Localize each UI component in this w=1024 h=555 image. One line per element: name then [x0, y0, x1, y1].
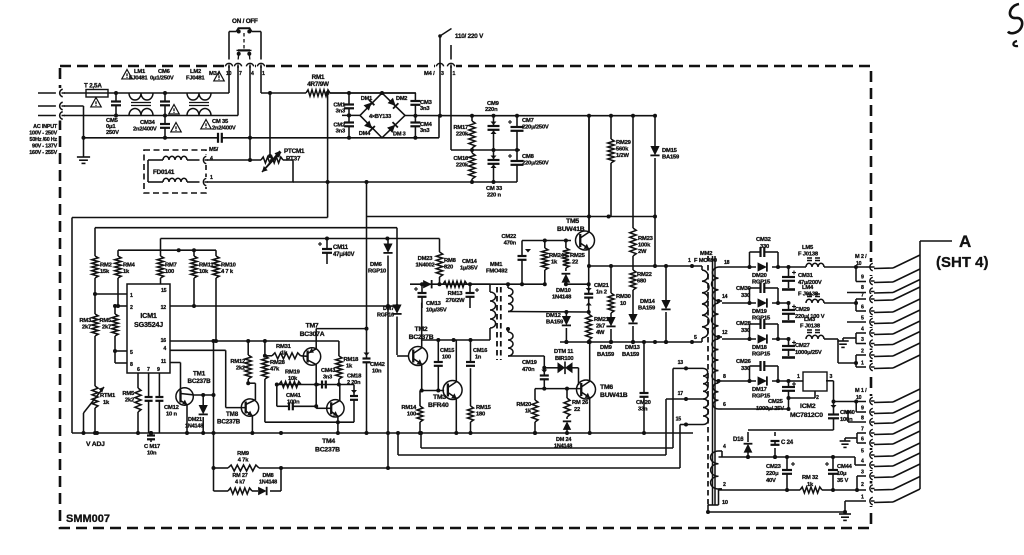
capacitor CM27	[787, 337, 791, 341]
svg-text:RM10: RM10	[221, 263, 236, 269]
svg-text:3: 3	[441, 71, 444, 77]
choke LM2 common-mode	[187, 93, 211, 100]
svg-text:330: 330	[760, 244, 769, 250]
wire M1 pin8 tie	[847, 412, 849, 422]
resistor RM25	[565, 241, 567, 249]
transformer MM1 core	[496, 287, 498, 360]
wire line C (neutral)	[64, 115, 238, 117]
svg-text:CM44: CM44	[837, 464, 853, 470]
svg-text:4 7 k: 4 7 k	[221, 269, 234, 275]
wire M5 pin4 to PTCM1	[207, 159, 261, 161]
HV mid rail	[451, 149, 520, 151]
svg-text:CM31: CM31	[798, 273, 814, 279]
svg-text:TM4: TM4	[322, 438, 335, 445]
capacitor CM35 series	[217, 133, 219, 143]
svg-text:CM7: CM7	[522, 118, 534, 124]
ground pin10	[839, 513, 851, 515]
svg-text:CM25: CM25	[768, 399, 784, 405]
resistor RM3	[94, 294, 96, 314]
resistor RM18	[338, 341, 340, 356]
svg-text:3: 3	[861, 470, 864, 476]
capacitor CM3	[414, 93, 416, 101]
svg-text:2: 2	[130, 305, 133, 311]
wire M2 pin 8 cascade	[874, 292, 893, 295]
wire M1 pin 1 cascade	[874, 501, 893, 504]
capacitor C24	[774, 448, 776, 457]
transistor TM8	[241, 399, 258, 416]
svg-text:MM1: MM1	[490, 262, 503, 268]
capacitor CM43	[321, 381, 323, 389]
thermistor PTCM1	[261, 157, 283, 163]
wire M2 pin 4 cascade	[874, 333, 893, 336]
svg-text:M 2 /: M 2 /	[855, 254, 867, 260]
svg-text:4: 4	[251, 71, 254, 77]
svg-text:560k: 560k	[616, 147, 629, 153]
capacitor CM41	[276, 385, 278, 407]
capacitor CM9	[493, 116, 495, 126]
capacitor CM29	[787, 301, 791, 305]
wires MM2 secondary taps	[719, 300, 723, 302]
svg-text:RM8: RM8	[444, 258, 457, 264]
TM2 emitter	[421, 364, 423, 391]
wire M1 pin 6 cascade	[874, 443, 893, 446]
svg-text:MC7812C0: MC7812C0	[790, 412, 823, 419]
svg-text:TM3: TM3	[433, 394, 446, 401]
ground M1 pin7/6	[844, 438, 846, 441]
svg-text:220n: 220n	[485, 107, 498, 113]
transistor TM2	[397, 355, 409, 357]
wire y284 row	[410, 283, 470, 285]
wire pin4 line	[170, 349, 226, 351]
svg-text:220k: 220k	[456, 132, 469, 138]
resistor RM11	[193, 250, 195, 256]
svg-text:M4 /: M4 /	[424, 71, 435, 77]
svg-text:BIR100: BIR100	[555, 356, 573, 362]
capacitor CM33	[493, 150, 495, 160]
svg-text:LM4: LM4	[802, 285, 814, 291]
svg-text:T 2,5A: T 2,5A	[84, 83, 102, 90]
svg-text:4: 4	[210, 156, 213, 162]
svg-text:9: 9	[861, 406, 864, 412]
connector M2 pin 8 hook	[866, 287, 875, 297]
stub M2 pin5	[847, 321, 866, 323]
svg-text:RTM1: RTM1	[100, 393, 116, 399]
svg-text:DM20: DM20	[752, 273, 767, 279]
svg-text:1k: 1k	[525, 409, 532, 415]
svg-text:CM27: CM27	[795, 343, 810, 349]
svg-text:FJ0481: FJ0481	[129, 76, 148, 82]
diode DM14	[665, 266, 667, 301]
svg-text:2: 2	[861, 482, 864, 488]
wire pin12 line	[170, 305, 397, 307]
resistor RM6	[137, 373, 139, 388]
capacitor CM7	[516, 116, 518, 127]
svg-text:1N4148: 1N4148	[259, 480, 277, 486]
resistor RM12	[247, 341, 249, 355]
svg-text:TM5: TM5	[566, 218, 579, 225]
resistor RM17	[471, 116, 473, 121]
connector M1 pin 10 hook	[866, 396, 875, 406]
capacitor CM8	[516, 150, 518, 161]
wire left column down	[71, 218, 73, 434]
svg-text:15: 15	[676, 417, 682, 423]
wire CM44 to M1 pin2	[833, 489, 866, 491]
svg-text:CM30: CM30	[736, 286, 751, 292]
svg-text:CM21: CM21	[594, 283, 610, 289]
wire line B (earth)	[64, 105, 84, 107]
wire M2 pin 9 cascade	[874, 281, 893, 284]
svg-text:33n: 33n	[638, 407, 648, 413]
svg-text:CM29: CM29	[795, 307, 811, 313]
svg-text:100V - 250V: 100V - 250V	[29, 131, 57, 137]
svg-text:DTM 11: DTM 11	[554, 349, 574, 355]
svg-text:1/2W: 1/2W	[616, 153, 629, 159]
svg-text:RM7: RM7	[165, 263, 177, 269]
svg-text:1: 1	[688, 258, 691, 264]
svg-text:DM9: DM9	[600, 345, 613, 351]
connector M1 pin 4 hook	[866, 460, 875, 470]
svg-text:4: 4	[163, 346, 166, 352]
svg-text:1μ/35V: 1μ/35V	[460, 266, 478, 272]
choke LM4	[806, 299, 824, 303]
capacitor CM19	[542, 366, 546, 370]
svg-text:100k: 100k	[638, 243, 651, 249]
svg-text:1N4002: 1N4002	[415, 263, 434, 269]
wire degauss return node	[293, 181, 328, 183]
svg-text:50Hz /60 Hz: 50Hz /60 Hz	[30, 137, 58, 143]
warning triangle near fuse	[91, 98, 101, 107]
capacitor CM6	[164, 93, 166, 102]
wire line A (live)	[64, 92, 86, 94]
rectifier row2 wire pin14	[722, 302, 756, 304]
label LM1	[122, 70, 132, 79]
svg-text:2k2: 2k2	[236, 366, 245, 372]
feedback wire pin17	[397, 433, 399, 455]
svg-text:1k: 1k	[346, 364, 353, 370]
svg-text:C 24: C 24	[781, 440, 794, 446]
svg-text:820: 820	[444, 265, 453, 271]
diode DM24	[566, 417, 568, 419]
resistor RM2	[94, 228, 96, 256]
wire pin1	[95, 293, 127, 295]
svg-text:BC307A: BC307A	[300, 331, 325, 338]
wire M2 pin 7 cascade	[874, 299, 893, 302]
svg-text:LM2: LM2	[190, 69, 201, 75]
svg-text:FMO492: FMO492	[486, 269, 507, 275]
svg-text:DM23: DM23	[418, 256, 434, 262]
wire M2 pin 6 cascade	[874, 311, 893, 314]
svg-text:2n2/400V: 2n2/400V	[212, 126, 236, 132]
svg-text:9: 9	[861, 275, 864, 281]
connector M2 pin 10 hook	[866, 262, 875, 272]
svg-text:47μ/40V: 47μ/40V	[333, 252, 354, 258]
svg-text:1k: 1k	[551, 260, 558, 266]
svg-text:2: 2	[816, 395, 819, 401]
wire M1 pin 8 cascade	[874, 422, 893, 425]
resistor RM31	[272, 353, 301, 359]
rectifier row3 wire pin12	[722, 338, 756, 340]
svg-text:RM22: RM22	[637, 272, 652, 278]
wire M2 pin 10 cascade	[874, 267, 893, 270]
svg-text:100n: 100n	[287, 400, 300, 406]
svg-text:4×BY133: 4×BY133	[369, 114, 391, 120]
svg-text:A: A	[959, 232, 971, 251]
resistor RM21	[586, 314, 592, 340]
svg-text:110/ 220 V: 110/ 220 V	[455, 33, 484, 40]
TM5 collector	[588, 220, 590, 232]
svg-text:10: 10	[856, 261, 862, 267]
PTCM1 arrows	[262, 152, 281, 172]
diode DM10	[565, 268, 567, 271]
TM7 emitter riser	[315, 329, 317, 349]
wire live to RM1	[261, 92, 306, 94]
resistor RM1	[306, 90, 330, 96]
choke LM3	[806, 335, 824, 339]
wire M2 pin10 long	[866, 266, 871, 268]
svg-text:330: 330	[741, 366, 750, 372]
svg-text:3n3: 3n3	[336, 109, 346, 115]
svg-text:1n: 1n	[475, 355, 482, 361]
svg-text:3n3: 3n3	[323, 375, 332, 381]
earth ground	[83, 106, 85, 157]
wire row pin4	[721, 451, 723, 457]
svg-text:RM20: RM20	[516, 402, 531, 408]
diode DM8	[252, 490, 258, 492]
svg-text:2: 2	[861, 349, 864, 355]
capacitor CM4	[410, 121, 420, 123]
svg-text:8: 8	[130, 362, 133, 368]
svg-text:17: 17	[678, 391, 684, 397]
svg-text:BUW41B: BUW41B	[557, 226, 585, 233]
svg-text:2 20n: 2 20n	[347, 380, 361, 386]
wire row pin2	[719, 488, 723, 490]
connector M2 pin 2 hook	[866, 350, 875, 360]
svg-text:DM6: DM6	[370, 262, 383, 268]
svg-text:RM28: RM28	[270, 360, 286, 366]
transformer MM1 sec top	[507, 284, 509, 288]
svg-text:PTCM1: PTCM1	[284, 148, 305, 155]
capacitor CM1	[348, 93, 350, 105]
wire TM2 collector row	[422, 339, 490, 341]
svg-text:BA159: BA159	[546, 320, 564, 326]
diode DM7	[396, 228, 398, 305]
resistor RM7	[160, 239, 162, 257]
wire x366 riser	[366, 182, 368, 329]
resistor RM23 column	[632, 116, 634, 228]
svg-text:RM13: RM13	[448, 291, 464, 297]
svg-text:330: 330	[741, 328, 750, 334]
capacitor CM2	[344, 121, 354, 123]
wire row3 to M2 pins 2/1	[837, 339, 839, 363]
capacitor CM12b	[158, 373, 160, 397]
connector M1 pin 7 hook	[866, 428, 875, 438]
svg-text:BA159: BA159	[597, 352, 615, 358]
transformer MM2 lower sec winding	[719, 450, 723, 452]
wire CM14 node to MM1	[470, 283, 490, 285]
svg-text:4 7k: 4 7k	[238, 458, 249, 464]
label CM35	[201, 120, 211, 129]
svg-text:0μ1/250V: 0μ1/250V	[150, 76, 174, 82]
svg-text:13: 13	[678, 360, 684, 366]
resistor RM28	[264, 341, 266, 356]
svg-text:4: 4	[861, 327, 864, 333]
connector M2 pin 3 hook	[866, 339, 875, 349]
svg-text:7: 7	[147, 367, 150, 373]
svg-text:15k: 15k	[100, 269, 110, 275]
capacitor CM25	[787, 379, 791, 383]
svg-text:RM31: RM31	[276, 344, 292, 350]
svg-text:180: 180	[476, 412, 485, 418]
capacitor CM14	[469, 284, 471, 288]
connector M2 pin 9 hook	[866, 276, 875, 286]
svg-text:3n3: 3n3	[336, 129, 346, 135]
resistor RM4	[117, 250, 119, 256]
svg-text:8: 8	[723, 374, 726, 380]
wire M1 pin 2 cascade	[874, 489, 893, 492]
resistor RM29	[610, 116, 612, 139]
svg-text:1000μ/25V: 1000μ/25V	[795, 350, 822, 356]
svg-text:220μ/250V: 220μ/250V	[522, 161, 549, 167]
capacitor CM12a	[148, 373, 150, 397]
wire pin8	[115, 362, 127, 364]
resistor RM9	[228, 465, 259, 471]
resistor RM10	[215, 250, 217, 256]
HV top rail	[472, 115, 656, 117]
ICM2 output wire to M1 pin10	[826, 380, 834, 382]
aux rail y216	[367, 216, 657, 218]
svg-text:470n: 470n	[504, 241, 517, 247]
svg-text:LM3: LM3	[804, 317, 816, 323]
svg-text:RM5: RM5	[122, 391, 135, 397]
resistor CM16	[471, 150, 473, 153]
bridge diode DM1	[364, 100, 375, 111]
ground rail y433	[72, 432, 693, 434]
bridge rectifier diamond	[360, 93, 405, 138]
connector M2 pin 6 hook	[866, 306, 875, 316]
svg-text:CM 33: CM 33	[486, 186, 503, 192]
svg-text:10μ/35V: 10μ/35V	[426, 308, 447, 314]
svg-text:4W: 4W	[596, 330, 605, 336]
svg-text:M 1 /: M 1 /	[855, 388, 867, 394]
transformer MM2 aux winding	[686, 367, 703, 369]
connector M3 hooks	[224, 60, 234, 69]
transistor TM6	[535, 388, 582, 390]
wire L1 left horizontal	[72, 217, 328, 219]
svg-text:RM3: RM3	[79, 318, 92, 324]
resistor RM19	[279, 382, 301, 388]
svg-text:CM8: CM8	[522, 154, 535, 160]
svg-text:RM4: RM4	[123, 263, 136, 269]
svg-text:22: 22	[572, 260, 578, 266]
resistor RM15	[470, 368, 472, 406]
svg-text:RGP10: RGP10	[368, 269, 386, 275]
svg-text:CM41: CM41	[286, 393, 302, 399]
transformer MM1 sec bottom	[506, 327, 510, 331]
wire M2 pin 3 cascade	[874, 344, 893, 347]
svg-text:CM23: CM23	[766, 464, 782, 470]
wire M4 pin3	[439, 36, 441, 116]
svg-text:1: 1	[453, 71, 456, 77]
MM2 primary pin5 rail	[560, 341, 702, 343]
potentiometer RTM1	[92, 386, 98, 408]
wire pin15 riser	[679, 425, 681, 469]
wire M3 pin4	[249, 66, 251, 160]
svg-text:RM1: RM1	[312, 74, 325, 81]
wire TM3 base	[422, 390, 444, 392]
svg-text:330: 330	[741, 293, 750, 299]
wire bridge right to rail	[405, 115, 472, 117]
ground M2 pin4/3	[842, 338, 844, 341]
svg-text:DM1: DM1	[361, 96, 372, 102]
transformer MM2 primary winding	[701, 266, 703, 270]
capacitor CM31	[787, 265, 791, 269]
svg-text:14: 14	[722, 294, 728, 300]
wire M3 pin7	[237, 66, 239, 116]
wire M1 pin7/6 ground tie	[856, 433, 858, 443]
svg-text:CM16: CM16	[473, 348, 487, 354]
svg-text:DM14: DM14	[640, 299, 656, 305]
capacitor CM15	[437, 340, 439, 362]
svg-text:RM29: RM29	[616, 140, 632, 146]
wire RM9 row	[213, 341, 215, 491]
diode DM15	[654, 116, 656, 147]
svg-text:RM14: RM14	[401, 405, 417, 411]
fuse T2,5A	[86, 90, 108, 98]
wire pin11 line	[170, 362, 181, 364]
svg-text:4R7/9W: 4R7/9W	[307, 81, 329, 88]
wire MM1 sec top to emitter column	[508, 311, 589, 314]
dashed enclosure border	[60, 66, 871, 528]
svg-text:BC237B: BC237B	[315, 447, 340, 454]
wire M1 pin 3 cascade	[874, 476, 893, 479]
transistor TM4	[327, 400, 344, 417]
connector M1 pin 2 hook	[866, 484, 875, 494]
wire live over bridge	[330, 92, 415, 94]
svg-text:6: 6	[137, 367, 140, 373]
rectifier row1 wire pin18	[722, 266, 756, 268]
resistor RM5	[114, 306, 116, 314]
svg-text:1k: 1k	[807, 482, 814, 488]
wire DM10 to CM21 segment	[566, 283, 589, 285]
svg-text:10n: 10n	[147, 451, 157, 457]
svg-text:8: 8	[861, 285, 864, 291]
wire pin2	[118, 305, 127, 307]
bridge diode DM4	[364, 121, 375, 132]
handwritten mark top right	[1008, 4, 1022, 33]
wire M2 pin 1 cascade	[874, 367, 893, 370]
connector M1 pin 5 hook	[866, 450, 875, 460]
choke LM5	[789, 266, 807, 268]
resistor RM32	[787, 489, 800, 491]
svg-text:RM 32: RM 32	[802, 475, 818, 481]
svg-text:F J0138: F J0138	[798, 252, 819, 258]
svg-text:DM19: DM19	[752, 309, 768, 315]
svg-text:5: 5	[861, 316, 864, 322]
resistor RM8	[439, 239, 441, 253]
svg-text:BC237B: BC237B	[188, 378, 212, 385]
svg-text:CM14: CM14	[462, 259, 478, 265]
svg-text:MM2: MM2	[700, 251, 712, 257]
svg-text:CM20: CM20	[636, 400, 651, 406]
diode DM12	[565, 312, 567, 317]
svg-text:220 n: 220 n	[487, 193, 501, 199]
svg-text:BA159: BA159	[662, 155, 680, 161]
wire pin16 line	[170, 340, 339, 342]
degauss coil bottom	[147, 160, 149, 182]
svg-text:2k7: 2k7	[82, 325, 91, 331]
connector M1 pin 6 hook	[866, 438, 875, 448]
switch ON/OFF lower contacts	[237, 52, 241, 56]
